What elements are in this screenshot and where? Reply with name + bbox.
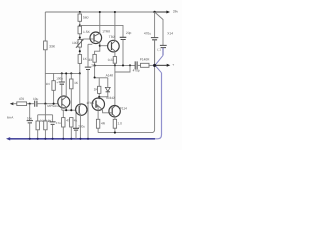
transistor TR4 input (47, 96, 69, 108)
wire TR3 emitter to TR1 base (103, 111, 110, 113)
trimmer VR1 100 (72, 39, 84, 48)
wire TR4 collector up (65, 73, 67, 96)
resistor R5 0.22 (108, 57, 117, 66)
wire wiper to TR8 base (84, 38, 90, 40)
resistor R12 (36, 115, 48, 139)
resistor R14 1K (70, 73, 79, 110)
node bias trimmer top (79, 37, 81, 39)
svg-text:TR2: TR2 (109, 35, 115, 39)
node y110 emitter (65, 109, 67, 111)
wire TR3 collector down (97, 107, 99, 119)
resistor R16 (70, 118, 78, 139)
wire TR2 collector (114, 51, 116, 57)
wire R6 node down (94, 65, 96, 77)
resistor R15 (62, 110, 70, 139)
svg-text:560: 560 (83, 15, 89, 19)
resistor R13 (44, 115, 53, 139)
wire bias to 20p (80, 25, 123, 37)
inductor L1 box (115, 65, 130, 72)
node ground C10 (87, 138, 89, 140)
node output junction (153, 64, 156, 67)
transistor TR2 (108, 35, 120, 52)
svg-text:20p: 20p (126, 31, 132, 35)
node base divider (44, 103, 46, 105)
wire trimmer to R4 (79, 47, 81, 55)
node rail bias (79, 11, 81, 13)
svg-text:4R: 4R (101, 121, 106, 125)
svg-text:10u: 10u (33, 97, 39, 101)
svg-text:47u: 47u (56, 121, 61, 125)
power arrow +V (155, 10, 179, 14)
svg-text:100: 100 (72, 41, 78, 45)
capacitor C3 470u (144, 12, 158, 65)
node y110 R14 (70, 109, 72, 111)
svg-text:+: + (172, 63, 174, 67)
svg-text:A148: A148 (106, 74, 114, 78)
capacitor C8 100u (56, 73, 65, 110)
svg-text:(.1: (.1 (157, 47, 161, 51)
svg-text:33: 33 (88, 58, 92, 62)
capacitor C10 feedback (85, 44, 97, 139)
svg-text:470: 470 (19, 97, 25, 101)
input arrow (10, 102, 17, 105)
svg-text:1K: 1K (74, 81, 79, 85)
svg-text:28v: 28v (173, 10, 179, 14)
node output return (114, 132, 116, 134)
svg-text:1K: 1K (83, 57, 88, 61)
resistor R1 33K (44, 41, 48, 50)
svg-text:1TR8: 1TR8 (102, 29, 110, 33)
svg-text:1TO5: 1TO5 (86, 101, 94, 105)
svg-text:TR342: TR342 (105, 96, 115, 100)
wire TR1 feed down (114, 72, 116, 106)
node y73 C8 (61, 72, 63, 74)
svg-text:P140R: P140R (140, 58, 150, 62)
node ground C7 (52, 138, 54, 140)
node input base R17 (53, 103, 55, 105)
capacitor C6 shunt (27, 104, 33, 139)
svg-text:X14: X14 (167, 31, 173, 35)
svg-text:P114: P114 (120, 106, 127, 110)
svg-text:6mA: 6mA (7, 115, 14, 119)
node ground R16 (70, 138, 72, 140)
wire navy diag top (156, 55, 163, 64)
wire divider feed (44, 104, 46, 115)
ground bus arrow (6, 137, 10, 140)
svg-text:0.22: 0.22 (108, 58, 114, 62)
wire TR5 collector chain (79, 73, 81, 104)
node below trimmer (79, 50, 81, 52)
svg-text:220u: 220u (78, 125, 85, 129)
resistor R3 1.5K (78, 26, 91, 39)
diode D1 (105, 74, 113, 97)
wire bias net horizontal (95, 77, 108, 79)
node bias net (94, 76, 96, 78)
wire TR4 emitter down (65, 107, 67, 110)
node mid bus 20p (122, 64, 124, 66)
node rail TR2 (114, 11, 116, 13)
svg-text:1.0: 1.0 (118, 121, 123, 125)
capacitor C4 (157, 31, 173, 55)
wire TR5 emitter (79, 115, 81, 139)
capacitor C9 220u (73, 110, 85, 139)
svg-text:+: + (48, 119, 50, 123)
node y73 chain (79, 72, 81, 74)
node input shunt (29, 103, 31, 105)
capacitor C1 20p (120, 31, 132, 65)
wire y110 rail (62, 109, 76, 111)
resistor R17 feedback (46, 73, 56, 103)
wire diag rail to C4 (155, 12, 163, 45)
resistor R9 emitter (96, 119, 105, 132)
node ground C6 (29, 138, 31, 140)
node ground TR5 (79, 138, 81, 140)
wire driver top net (99, 96, 108, 98)
wire top +V rail (45, 11, 154, 13)
resistor R7 output (140, 58, 155, 68)
node ground R13 (44, 138, 46, 140)
resistor R8 1K (94, 78, 101, 97)
resistor R10 emitter (113, 119, 122, 132)
node mid bus R5 (114, 64, 116, 66)
node TR2 base tap (99, 45, 101, 47)
wire driver feed (98, 97, 100, 99)
node bias tap (79, 24, 81, 26)
capacitor C7 47u (48, 115, 61, 139)
wire navy diag bottom (156, 66, 162, 73)
node y73 R14 (70, 72, 72, 74)
resistor R6 33R (88, 54, 96, 65)
node ground R12 (37, 138, 39, 140)
wire mid bus 65 (95, 64, 136, 66)
wire left rail lower (44, 50, 46, 104)
transistor TR5 second (76, 101, 95, 115)
node mid bus left (94, 64, 96, 66)
node driver top (98, 96, 100, 98)
wire TR8 collector down (95, 43, 100, 55)
wire TR1 emitter down (114, 117, 116, 120)
wire y73 line (45, 72, 80, 74)
wire navy right vertical (155, 73, 162, 139)
capacitor C5 10u input (33, 97, 58, 107)
wire left rail upper (44, 12, 46, 41)
transistor TR8 (90, 29, 110, 43)
resistor R2 560 (78, 12, 89, 26)
svg-text:25v: 25v (91, 64, 96, 68)
node ground R15 (62, 138, 64, 140)
node mid bus L (129, 64, 131, 66)
wire TR2 emitter to rail (114, 12, 116, 41)
wire output return gray (98, 40, 155, 133)
output arrow (155, 63, 175, 67)
node rail end (153, 11, 155, 13)
resistor R4 1K (78, 55, 88, 74)
ground bus navy (9, 138, 155, 140)
resistor R11 470 (17, 97, 34, 105)
svg-text:470u: 470u (144, 32, 151, 36)
svg-text:MPSA18: MPSA18 (47, 104, 59, 108)
svg-text:33K: 33K (49, 44, 56, 48)
svg-text:+: + (56, 80, 58, 84)
wire divider tee (38, 114, 53, 116)
svg-text:470p: 470p (133, 69, 140, 73)
transistor TR1 output (109, 106, 127, 117)
svg-text:1N: 1N (46, 82, 50, 86)
wire to TR2 base (100, 45, 108, 47)
node y73 collector (65, 72, 67, 74)
svg-text:1.5K: 1.5K (83, 30, 91, 34)
transistor TR3 driver (92, 96, 115, 111)
capacitor C2 series (133, 61, 141, 72)
svg-text:10o: 10o (27, 116, 33, 120)
node rail TR8 (99, 11, 101, 13)
wire TR8 emitter to rail (99, 12, 101, 33)
